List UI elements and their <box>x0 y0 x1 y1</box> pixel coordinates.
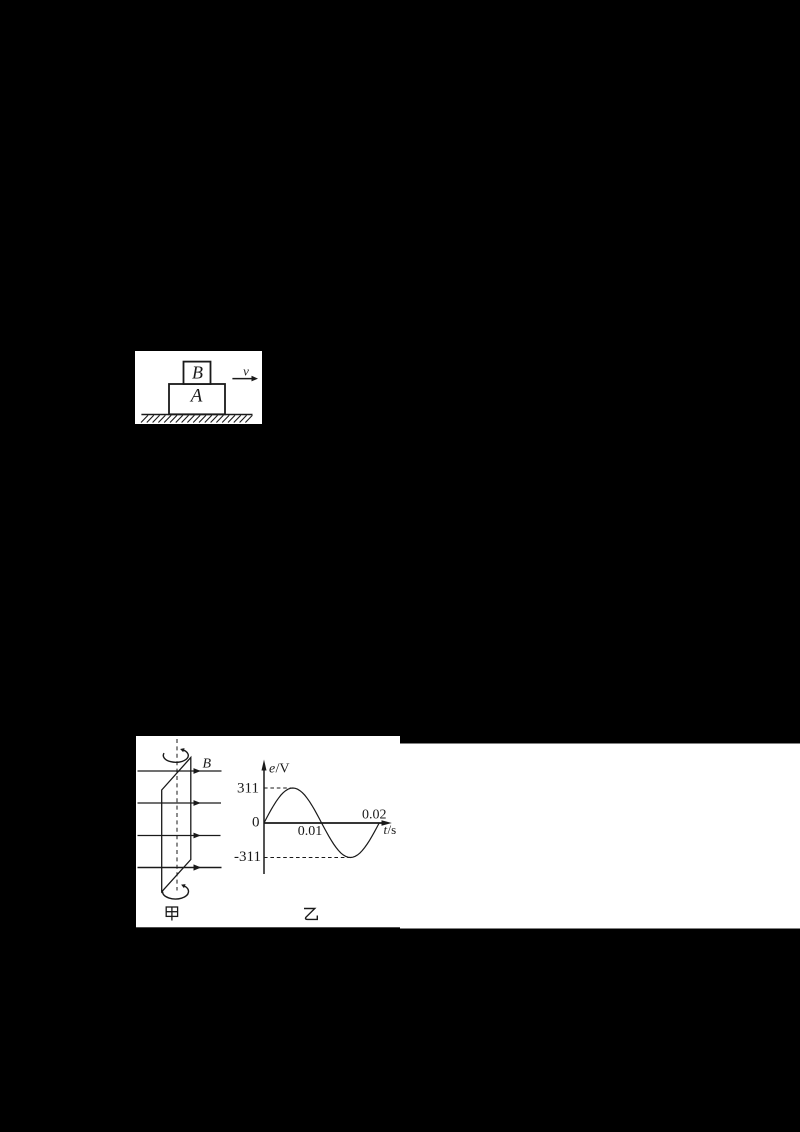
svg-text:v: v <box>243 364 249 379</box>
svg-text:/s: /s <box>388 822 397 837</box>
dashed level +311 <box>264 787 293 789</box>
e/V axis (vertical) <box>262 760 290 875</box>
figure 1: blocks A and B on ground <box>135 351 262 424</box>
svg-text:311: 311 <box>237 781 259 797</box>
svg-text:A: A <box>189 386 203 407</box>
svg-text:0.02: 0.02 <box>362 808 387 823</box>
svg-text:B: B <box>203 757 212 772</box>
field line B1 <box>138 768 222 774</box>
svg-text:e: e <box>269 762 275 777</box>
label jia (Chinese) <box>166 907 177 921</box>
top rotation arrow <box>163 748 188 762</box>
svg-text:0: 0 <box>252 815 260 831</box>
bottom rotation arrow <box>163 884 189 899</box>
svg-text:B: B <box>192 363 203 383</box>
dashed level -311 <box>264 857 351 859</box>
field line B3 <box>138 833 221 839</box>
label yi (Chinese) <box>304 909 317 920</box>
svg-text:0.01: 0.01 <box>298 824 323 839</box>
coil (parallelogram loop) <box>162 758 191 892</box>
t/s axis (horizontal) <box>264 820 397 837</box>
field line B4 <box>138 864 222 870</box>
svg-text:/V: /V <box>276 762 290 777</box>
figure 2: rotating coil (jia) and emf graph (yi) <box>136 736 800 929</box>
block B <box>184 362 211 384</box>
sine curve <box>264 788 379 858</box>
ground <box>141 415 253 423</box>
block A <box>169 384 225 414</box>
svg-text:-311: -311 <box>234 849 261 865</box>
rotation axis (dashed) <box>176 739 178 891</box>
field line B2 <box>138 800 222 806</box>
velocity arrow v <box>232 364 258 382</box>
